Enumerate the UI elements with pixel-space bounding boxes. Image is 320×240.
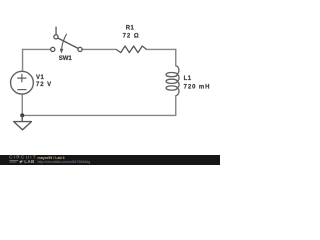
wire left vertical	[22, 49, 24, 71]
switch SW1	[51, 27, 83, 54]
switch blade	[58, 38, 79, 49]
svg-text:http://circuitlab.com/c/667966: http://circuitlab.com/c/6679666dg	[38, 160, 91, 164]
wire switch to resistor	[82, 48, 116, 50]
svg-text:720 mH: 720 mH	[184, 84, 211, 90]
wire top right segment	[146, 48, 175, 50]
inductor L1	[166, 66, 179, 96]
terminal right	[78, 47, 82, 51]
CircuitLab logo	[9, 155, 37, 164]
voltage source V1	[11, 71, 34, 94]
switch stub wire	[55, 27, 57, 35]
svg-text:SW1: SW1	[59, 56, 73, 62]
ground	[14, 115, 32, 129]
svg-text:72 V: 72 V	[36, 82, 52, 88]
terminal top	[54, 35, 58, 39]
wire right vertical upper	[175, 49, 177, 65]
wire V1 bottom to junction	[21, 94, 23, 115]
svg-text:L1: L1	[184, 76, 192, 82]
resistor R1	[116, 46, 146, 53]
junction node	[20, 113, 24, 117]
svg-text:R1: R1	[126, 25, 135, 31]
svg-text:72 Ω: 72 Ω	[123, 34, 140, 40]
wire right vertical lower	[175, 96, 177, 116]
watermark bar	[0, 155, 220, 165]
svg-text:V1: V1	[36, 75, 45, 81]
svg-text:LAB: LAB	[24, 159, 34, 164]
terminal left	[51, 47, 55, 51]
switch arrow	[62, 34, 67, 49]
wire top-left horizontal	[23, 48, 51, 50]
wire bottom horizontal	[22, 114, 176, 116]
